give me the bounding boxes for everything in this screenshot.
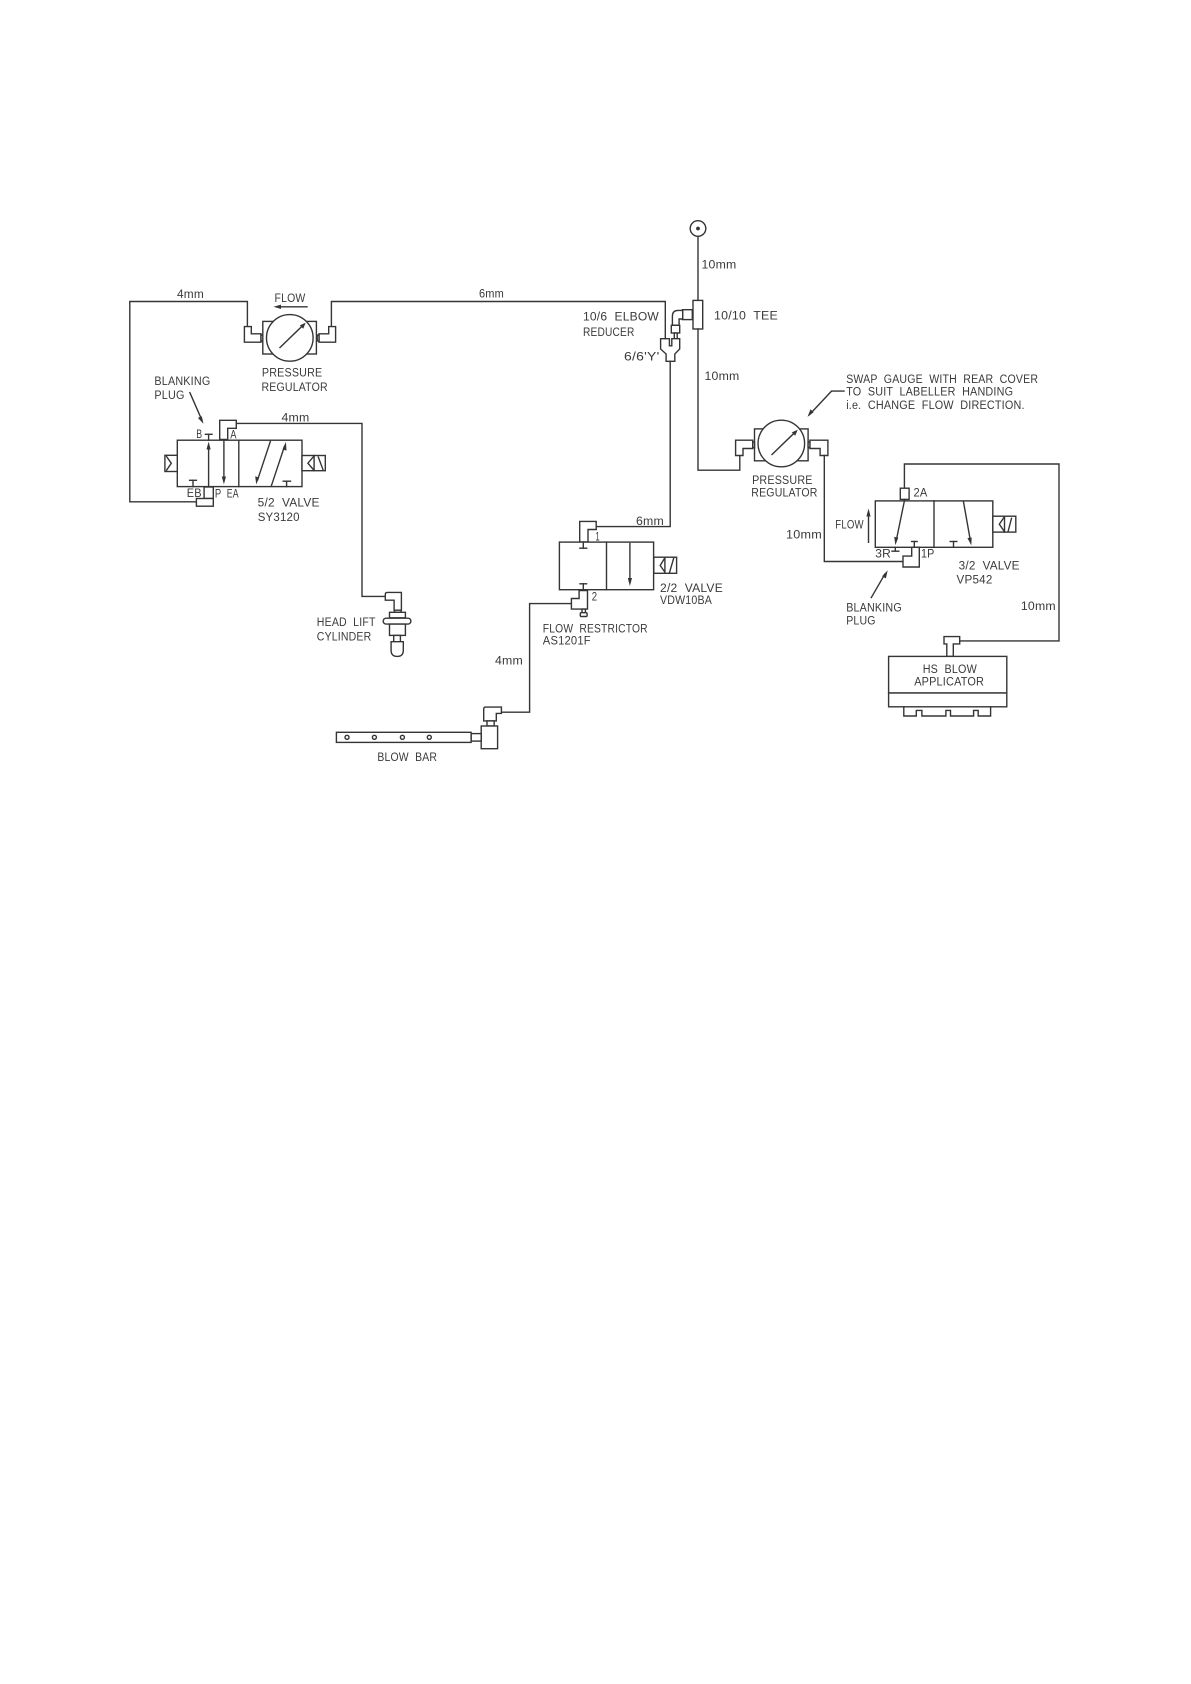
vent port symbol [690, 221, 706, 237]
svg-text:4mm: 4mm [495, 656, 523, 668]
svg-text:VP542: VP542 [957, 575, 993, 587]
wire restrictor to blow bar [501, 604, 571, 713]
2/2 port 1 blocked T [580, 542, 587, 548]
5/2 P port elbow fitting [196, 487, 213, 506]
svg-text:2: 2 [592, 591, 598, 603]
svg-text:REGULATOR: REGULATOR [751, 488, 817, 500]
2/2 valve VDW10BA [559, 542, 653, 590]
tee 10/10 branch [683, 310, 693, 320]
head lift cylinder elbow [385, 592, 401, 610]
blanking plug arrow left [190, 393, 204, 424]
svg-text:CYLINDER: CYLINDER [317, 632, 372, 644]
wire tee down to right regulator [698, 329, 740, 470]
svg-text:6/6'Y': 6/6'Y' [624, 352, 660, 364]
svg-text:BLOW BAR: BLOW BAR [377, 752, 437, 764]
svg-text:3R: 3R [875, 549, 891, 561]
svg-text:REGULATOR: REGULATOR [262, 382, 328, 394]
svg-text:2A: 2A [914, 487, 928, 499]
3/2 solenoid [993, 516, 1016, 532]
tee 10/10 body [693, 300, 703, 329]
label HS BLOW APPLICATOR [914, 664, 984, 688]
3/2 left cell arrow 2A to 3R [892, 501, 904, 551]
wire vent to tee [697, 236, 699, 300]
5/2 valve SY3120 [177, 440, 302, 486]
3/2 valve VP542 [875, 501, 993, 547]
pressure regulator left: needle [280, 323, 306, 348]
3/2 1P elbow fitting [903, 547, 919, 567]
pressure regulator right: left fitting [736, 440, 753, 455]
wire 3/2 2A to applicator line [904, 464, 1059, 641]
blow bar [336, 732, 471, 742]
3/2 right cell blocked T [950, 542, 957, 548]
svg-text:10mm: 10mm [702, 260, 737, 272]
HS blow applicator [889, 656, 1007, 716]
5/2 right cell blocked T [283, 481, 290, 486]
note leader arrow [808, 391, 845, 417]
svg-text:FLOW RESTRICTOR: FLOW RESTRICTOR [543, 624, 648, 636]
svg-text:SWAP GAUGE WITH REAR COVER: SWAP GAUGE WITH REAR COVER [846, 374, 1038, 386]
svg-text:5/2 VALVE: 5/2 VALVE [258, 498, 320, 510]
svg-text:4mm: 4mm [177, 289, 204, 301]
blow bar elbow [484, 707, 502, 721]
svg-text:REDUCER: REDUCER [583, 327, 635, 339]
3/2 1P blocked T [912, 542, 918, 548]
svg-text:SY3120: SY3120 [258, 512, 300, 524]
svg-text:BLANKING: BLANKING [846, 603, 902, 615]
svg-text:2/2 VALVE: 2/2 VALVE [660, 583, 723, 595]
5/2 left end cap with pilot chevron [165, 455, 177, 471]
wire top 6mm line [331, 302, 665, 339]
svg-text:HEAD LIFT: HEAD LIFT [317, 617, 376, 629]
svg-text:HS BLOW: HS BLOW [923, 664, 977, 676]
reducer tube [674, 333, 677, 339]
5/2 A port elbow fitting [220, 420, 237, 439]
pressure regulator right: gauge circle [758, 420, 805, 467]
pressure regulator right: right fitting [810, 440, 828, 455]
svg-text:PRESSURE: PRESSURE [262, 368, 323, 380]
5/2 right cell diagonal 2 [271, 442, 286, 486]
flow arrow left regulator [274, 305, 308, 309]
port labels 5/2 [187, 429, 239, 501]
pressure regulator left: body [263, 321, 317, 354]
3/2 FLOW label and arrow [835, 509, 870, 543]
svg-text:B: B [196, 429, 202, 441]
svg-text:PLUG: PLUG [846, 616, 876, 628]
wire A port to head lift cylinder [236, 423, 385, 596]
wire left 4mm line [130, 302, 248, 502]
svg-text:6mm: 6mm [479, 289, 504, 301]
wire right regulator to 3/2 valve 1P [824, 456, 903, 562]
svg-text:EA: EA [227, 488, 239, 500]
wire Y fitting to 2/2 valve [596, 361, 670, 526]
blow bar fitting block [481, 726, 497, 749]
svg-text:PLUG: PLUG [154, 390, 184, 402]
Y fitting 6/6 [661, 339, 680, 362]
flow restrictor AS1201F elbow [571, 591, 587, 617]
svg-text:i.e. CHANGE FLOW DIRECTION.: i.e. CHANGE FLOW DIRECTION. [846, 400, 1024, 412]
svg-text:FLOW: FLOW [835, 520, 863, 532]
blanking plug arrow right [871, 570, 887, 597]
svg-text:APPLICATOR: APPLICATOR [914, 676, 984, 688]
pressure regulator left: right fitting [319, 327, 336, 343]
reducer block [671, 325, 679, 333]
5/2 solenoid [302, 456, 325, 471]
svg-text:6mm: 6mm [636, 516, 664, 528]
svg-text:10/10 TEE: 10/10 TEE [714, 311, 778, 323]
HS blow applicator elbow [944, 637, 960, 657]
elbow reducer 10/6 [672, 310, 682, 325]
3/2 valve 2A port fitting [900, 488, 909, 501]
pressure regulator right: needle [772, 430, 798, 455]
blow bar connector [471, 734, 481, 742]
pressure regulator right: body [755, 429, 809, 461]
port labels 3/2 [875, 549, 934, 561]
svg-text:10mm: 10mm [705, 371, 740, 383]
5/2 right cell diagonal 1 [255, 441, 270, 484]
5/2 B port blocked T [205, 434, 212, 440]
2/2 port 2 blocked T [580, 584, 587, 590]
5/2 EB blocked T [190, 480, 197, 486]
svg-text:FLOW: FLOW [275, 293, 306, 305]
svg-text:TO SUIT LABELLER HANDING: TO SUIT LABELLER HANDING [846, 386, 1013, 398]
3/2 right cell diagonal [963, 501, 971, 545]
head lift cylinder [383, 610, 411, 656]
pressure regulator left: gauge circle [267, 315, 314, 362]
2/2 valve port 1 elbow [580, 521, 597, 542]
svg-text:BLANKING: BLANKING [154, 376, 210, 388]
5/2 up arrow P to B [207, 442, 211, 487]
2/2 solenoid [654, 557, 677, 573]
svg-text:EB: EB [187, 488, 202, 500]
svg-text:10/6 ELBOW: 10/6 ELBOW [583, 312, 659, 324]
svg-text:10mm: 10mm [786, 530, 822, 542]
svg-text:P: P [215, 488, 222, 500]
svg-text:4mm: 4mm [282, 412, 310, 424]
svg-text:10mm: 10mm [1021, 601, 1056, 613]
svg-text:3/2 VALVE: 3/2 VALVE [959, 561, 1020, 573]
svg-text:VDW10BA: VDW10BA [660, 595, 712, 607]
2/2 flow arrow [628, 544, 632, 586]
note text swap gauge [846, 374, 1038, 412]
svg-text:PRESSURE: PRESSURE [752, 475, 813, 487]
5/2 down arrow A to EA [222, 440, 226, 484]
svg-text:A: A [230, 429, 237, 441]
svg-text:1P: 1P [921, 549, 935, 561]
pressure regulator left: left fitting [244, 327, 261, 343]
svg-text:AS1201F: AS1201F [543, 636, 591, 648]
